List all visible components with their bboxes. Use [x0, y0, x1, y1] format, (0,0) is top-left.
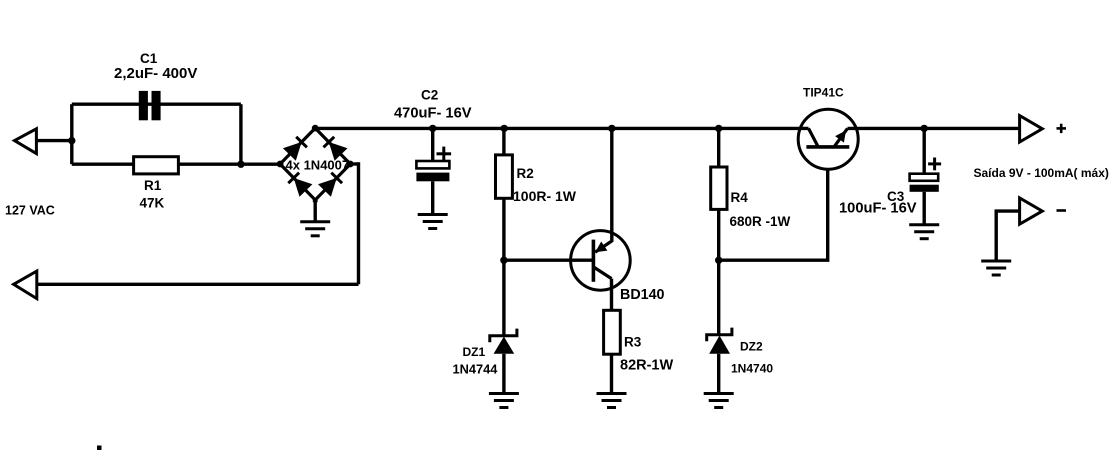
capacitor C1	[139, 91, 161, 120]
bridge rectifier 4x 1N4007	[280, 128, 350, 200]
resistor R1	[134, 157, 179, 174]
label +	[1057, 124, 1067, 133]
node bridge bottom	[313, 198, 318, 202]
ground (output -)	[981, 261, 1011, 275]
node BD140 emitter rail tap	[608, 125, 615, 132]
terminal input top (127 VAC phase)	[15, 129, 37, 154]
svg-text:2,2uF- 400V: 2,2uF- 400V	[114, 65, 197, 82]
svg-text:47K: 47K	[140, 196, 165, 211]
svg-text:470uF- 16V: 470uF- 16V	[394, 106, 472, 122]
diode D2 (R to T)	[329, 142, 348, 161]
svg-text:C2: C2	[421, 88, 438, 103]
node input junction	[68, 137, 75, 144]
terminal input bottom (127 VAC neutral)	[14, 271, 37, 299]
label -	[1057, 209, 1067, 212]
node	[237, 161, 244, 168]
ground (R3)	[597, 394, 627, 408]
wire TIP41C base link	[719, 169, 828, 261]
wire	[610, 354, 613, 393]
svg-text:82R-1W: 82R-1W	[620, 358, 673, 374]
wire	[502, 128, 505, 260]
resistor R2	[496, 155, 513, 198]
capacitor C3 polarity +	[928, 158, 941, 171]
node bridge right	[347, 161, 354, 168]
capacitor C3	[910, 174, 939, 192]
wire	[357, 162, 360, 284]
wire	[350, 162, 358, 165]
svg-text:4x 1N4007: 4x 1N4007	[286, 158, 350, 173]
zener DZ1 1N4744	[490, 260, 517, 393]
svg-text:R4: R4	[731, 190, 749, 205]
wire	[431, 128, 434, 161]
wire	[70, 104, 73, 164]
svg-text:680R -1W: 680R -1W	[730, 214, 791, 229]
node R4/DZ2/base junction	[715, 257, 722, 264]
svg-text:C1: C1	[140, 51, 158, 66]
transistor Q1 BD140	[571, 128, 631, 310]
wire	[431, 181, 434, 214]
capacitor C2 polarity +	[437, 147, 452, 161]
wire	[717, 128, 720, 260]
wire base of BD140	[504, 259, 592, 262]
diode D3 (B to L)	[294, 178, 313, 197]
wire	[239, 104, 242, 164]
node R2/DZ1/base junction	[500, 257, 507, 264]
wire	[72, 162, 280, 165]
terminal output -	[1020, 198, 1043, 224]
wire	[923, 192, 926, 225]
node R4 tap	[715, 125, 722, 132]
ground (C3)	[909, 225, 939, 239]
wire	[314, 200, 317, 222]
wire main positive rail right	[848, 127, 1020, 130]
stray mark	[97, 446, 102, 451]
wire	[37, 283, 359, 286]
resistor R3	[604, 310, 621, 354]
svg-text:1N4744: 1N4744	[453, 362, 499, 377]
ground (C2)	[418, 215, 448, 229]
node C3 tap	[921, 125, 928, 132]
wire	[996, 211, 1019, 261]
node bridge left	[277, 161, 284, 168]
node bridge top	[312, 125, 319, 132]
diode D4 (B to R)	[318, 178, 337, 197]
svg-text:DZ2: DZ2	[740, 340, 763, 354]
svg-text:1N4740: 1N4740	[731, 362, 773, 376]
node R2 tap	[501, 125, 508, 132]
svg-text:R1: R1	[144, 178, 162, 193]
wire main positive rail left	[315, 127, 808, 130]
svg-text:TIP41C: TIP41C	[803, 86, 844, 100]
svg-text:127 VAC: 127 VAC	[5, 204, 55, 218]
svg-text:100uF- 16V: 100uF- 16V	[839, 201, 917, 217]
zener DZ2 1N4740	[707, 260, 732, 393]
svg-text:BD140: BD140	[620, 287, 665, 303]
diode D1 (L to T)	[283, 142, 302, 161]
svg-text:Saída 9V - 100mA( máx): Saída 9V - 100mA( máx)	[974, 166, 1109, 180]
transistor Q2 TIP41C	[798, 109, 858, 169]
wire	[923, 128, 926, 174]
svg-text:DZ1: DZ1	[463, 345, 486, 359]
ground (DZ1)	[489, 394, 519, 408]
resistor R4	[711, 167, 727, 209]
svg-text:R3: R3	[624, 335, 642, 350]
ground (DZ2)	[704, 394, 734, 408]
wire	[72, 102, 241, 105]
ground (bridge)	[300, 222, 330, 236]
capacitor C2	[416, 161, 449, 181]
svg-text:100R- 1W: 100R- 1W	[513, 188, 577, 204]
terminal output +	[1020, 116, 1043, 142]
wire	[36, 139, 71, 142]
svg-text:R2: R2	[517, 166, 534, 181]
node C2 tap	[429, 125, 436, 132]
